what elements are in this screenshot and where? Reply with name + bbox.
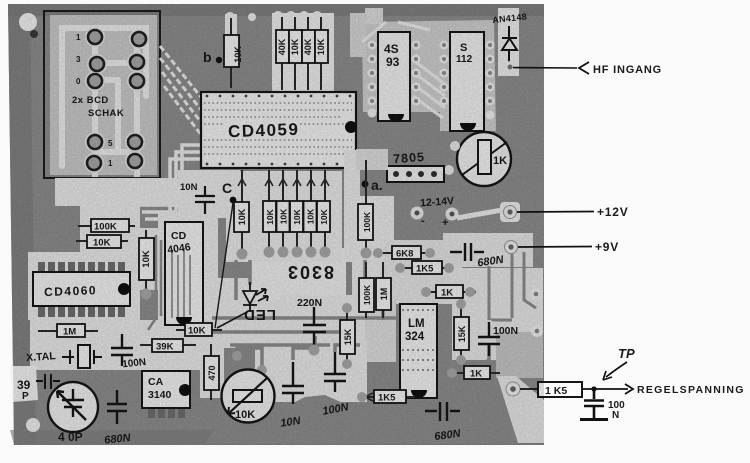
capacitor 100N at output	[584, 391, 604, 418]
resistor 10K box	[76, 235, 128, 249]
diagonal trace bundle BCD to CD4059	[160, 46, 208, 136]
resistor 10K (top, near b)	[224, 18, 243, 88]
resistor 10K below CD4046	[176, 323, 222, 337]
darker margins of board	[8, 4, 544, 16]
resistor 15K vertical (left)	[340, 303, 355, 369]
resistor 10K (below 4059, single)	[234, 170, 249, 260]
BCD switch outline frame	[44, 11, 160, 178]
resistor 15K vertical (right)	[454, 299, 469, 365]
BCD block pads	[87, 30, 146, 170]
crystal	[62, 345, 102, 368]
resistor 10K (cluster 3)	[302, 17, 315, 90]
pad HF	[504, 61, 516, 73]
mounting hole top-left	[19, 13, 37, 31]
BCD switch block background	[50, 15, 157, 175]
resistor 1M vertical	[376, 262, 391, 318]
LS93 left pad column	[368, 41, 495, 120]
label a.	[362, 181, 369, 188]
pads top edge	[225, 11, 322, 64]
junction dot	[591, 386, 596, 391]
+9V annotation	[518, 246, 592, 249]
CD4059 pin dots top row	[206, 95, 352, 98]
capacitor 10N (bottom)	[282, 362, 304, 404]
IC CD4059 body	[201, 92, 356, 168]
12-14V pads	[411, 207, 424, 220]
resistor 10K (cluster 4)	[315, 17, 328, 90]
resistor 100K vertical (upper)	[358, 160, 373, 259]
mounting hole bottom-left	[26, 418, 40, 432]
trace from + pad to +12V pad	[457, 210, 502, 218]
capacitor 10N (left of C)	[195, 186, 215, 214]
resistor row below CD4059: 5x 10K	[263, 170, 331, 258]
gray traces left of CD4046	[148, 235, 161, 330]
svg-text:+9V: +9V	[595, 240, 619, 254]
resistor 1K box (upper)	[421, 285, 475, 299]
IC LS93 body	[378, 32, 410, 121]
IC S112 body	[450, 32, 484, 131]
svg-text:HF INGANG: HF INGANG	[593, 64, 662, 76]
svg-text:REGELSPANNING: REGELSPANNING	[637, 384, 745, 396]
white zone around 680N top	[443, 233, 533, 267]
REGELSPANNING annotation line	[520, 388, 537, 390]
+9V pad	[505, 241, 518, 254]
svg-text:+12V: +12V	[597, 205, 629, 219]
diode AN4148	[502, 26, 517, 62]
trimmer 10K circle	[222, 370, 275, 423]
svg-text:TP: TP	[618, 346, 635, 361]
LED with arrows	[243, 282, 268, 312]
BCD block pad halos	[84, 27, 149, 173]
svg-text:1 K5: 1 K5	[545, 385, 567, 397]
IC CA3140	[148, 409, 185, 418]
white notch at left edge for 39P	[10, 366, 38, 402]
resistor 39K box	[140, 339, 196, 353]
capacitor 100N (bottom)	[324, 352, 346, 392]
bottom-right white trace strip	[497, 376, 544, 443]
+12V pad	[500, 202, 520, 222]
white strips for top resistor cluster	[272, 13, 334, 93]
IC LM324	[400, 304, 437, 398]
REGELSPANNING pad	[506, 382, 520, 396]
gray traces caps area	[237, 345, 489, 373]
+12V annotation	[517, 211, 594, 214]
capacitor 100N (xtal area)	[111, 334, 133, 366]
trace loops below CD4059 left	[95, 145, 200, 219]
resistor 1K5 box (mid)	[395, 261, 454, 275]
CD4059 interior dotted traces	[204, 103, 352, 154]
resistor 10K vertical (left of CD4046)	[139, 230, 154, 300]
ground symbol	[580, 418, 608, 421]
capacitor 680N bottom-left	[107, 390, 127, 424]
LED wires to 10K	[217, 312, 247, 328]
HF INGANG annotation	[513, 67, 577, 69]
resistor 470 vertical	[204, 344, 219, 400]
resistor 10K (cluster 1)	[276, 17, 289, 90]
lead arrows below CD4059	[238, 179, 329, 186]
LM324 side pin marks	[402, 310, 435, 370]
white strip for diode AN4148	[498, 8, 519, 76]
resistor 1M box	[38, 324, 98, 338]
white band right of CD4059	[356, 149, 388, 170]
gray wedge bottom middle	[204, 395, 518, 444]
light patch behind LS93 and S112	[362, 20, 496, 131]
resistor 1K5 (output)	[538, 382, 582, 397]
grain overlay on board	[8, 4, 544, 445]
CD4059 pin dots bottom row	[206, 163, 352, 166]
IC CD4046	[165, 222, 203, 325]
trimmer 1K circle	[457, 132, 511, 186]
hatch traces between LS93 and S112	[362, 22, 445, 118]
pads around trimmer	[450, 141, 460, 151]
capacitor 39P	[36, 374, 60, 389]
BCD block white traces	[62, 28, 155, 192]
capacitor 680N top right	[450, 243, 484, 261]
IC CD4060	[38, 262, 125, 317]
resistor 1K box (lower)	[447, 366, 500, 380]
resistor 100K box	[78, 219, 135, 233]
resistor 10K (cluster 2)	[289, 17, 302, 90]
gray traces in central white zone	[212, 260, 400, 352]
central white zones	[55, 178, 252, 206]
resistor 6K8 box	[373, 246, 435, 260]
svg-text:N: N	[612, 410, 619, 421]
CD4059 pin1 notch	[345, 121, 357, 133]
trimmer 40P circle	[48, 382, 98, 432]
resistor 100K vertical (lower)	[359, 262, 374, 318]
capacitor 680N bottom right	[425, 402, 460, 421]
PCB board photo area	[8, 4, 544, 445]
resistor 1K5 box (bottom left of LM324)	[357, 390, 415, 404]
